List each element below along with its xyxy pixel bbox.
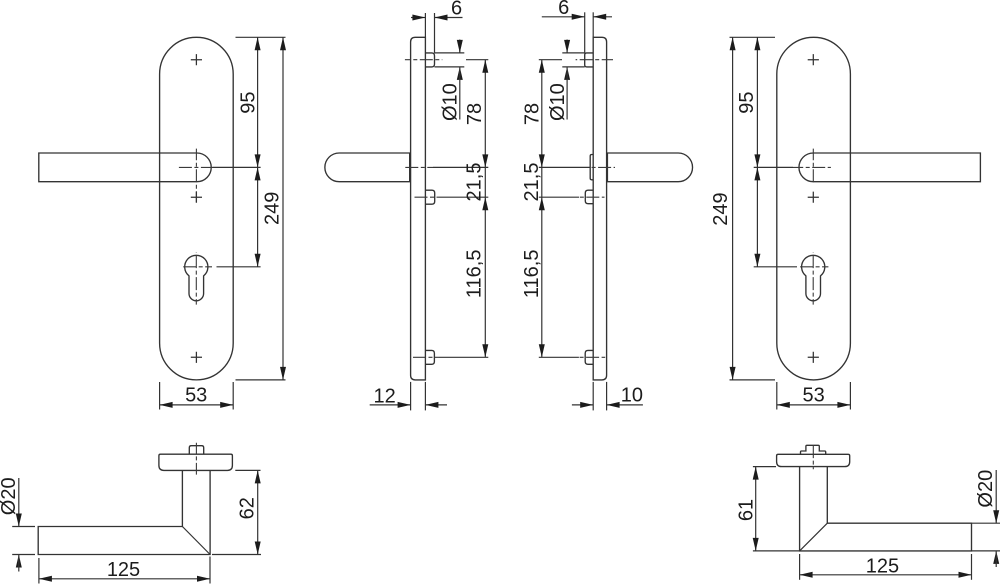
backplate edge (left handle top view) [159,454,233,470]
dimension 10 (inside side view) [572,382,643,411]
dimension 78 (inside side view) [522,60,563,168]
dimension diameter 20 (left handle top view) [0,477,35,571]
dimension 53 (inside front view) [777,382,851,410]
svg-text:53: 53 [185,384,207,406]
svg-text:249: 249 [262,192,284,225]
spindle end (left handle top view) [189,443,203,475]
dimension 125 (left handle top view) [39,557,210,584]
svg-text:6: 6 [558,0,569,19]
dimension diameter 10 (inside side view) [547,40,585,122]
centerline spindle (inside side view) [539,196,605,198]
backplate profile (inside side view) [593,37,606,380]
lever handle profile (inside side view) [607,153,693,182]
dimension 62 (left handle top view) [212,470,261,554]
centerline top boss (outside side view) [405,59,442,61]
screw mark middle (outside front view) [191,192,202,203]
svg-text:10: 10 [621,384,643,406]
top fixing boss (outside side view) [425,53,434,67]
lever centerline cross (outside front view) [179,149,213,203]
lever handle (outside front view) [39,153,211,182]
dimension 61 (right handle top view) [736,467,800,551]
centerline bottom boss (inside side view) [539,356,605,358]
svg-text:Ø10: Ø10 [547,83,569,121]
lever handle (left handle top view) [38,470,210,554]
dimension 21,5 (inside side view) [521,163,543,202]
lever hub (inside side view) [590,155,593,180]
svg-text:249: 249 [710,192,732,225]
backplate outline (outside front view) [160,37,234,380]
centerline lever (inside side view) [539,166,615,168]
dimension 116,5 (inside side view) [521,197,545,357]
dimension 6 (outside side view) [411,0,463,53]
svg-text:12: 12 [373,386,395,408]
dimension lever-to-cylinder (inside front view) [754,167,760,266]
screw mark top (outside front view) [191,54,202,65]
bottom fixing boss (inside side view) [585,350,593,364]
dimension 249 (outside front view) [262,37,287,380]
spindle boss (inside side view) [585,190,593,204]
centerline top boss (inside side view) [576,59,613,61]
backplate profile (outside side view) [411,37,426,380]
lever centerline cross (inside front view) [793,149,831,185]
svg-text:95: 95 [736,91,758,113]
svg-text:95: 95 [238,91,260,113]
dimension 6 (inside side view) [542,0,612,53]
svg-text:125: 125 [107,559,140,581]
dimension 78 (outside side view) [464,60,488,168]
screw mark bottom (outside front view) [191,352,202,363]
svg-text:Ø20: Ø20 [975,470,997,508]
centerline bottom boss (outside side view) [413,356,489,358]
svg-text:53: 53 [802,384,824,406]
svg-text:78: 78 [464,103,486,125]
dimension lever-to-cylinder (outside front view) [255,167,261,266]
dimension 53 (outside front view) [160,382,234,410]
screw mark bottom (inside front view) [808,352,819,363]
svg-text:116,5: 116,5 [521,250,543,299]
euro profile cylinder hole (outside front view) [181,252,212,304]
lever handle (right handle top view) [800,467,972,551]
extension lines (outside front view) [213,37,286,380]
dimension 95 (outside front view) [238,37,261,167]
dimension 249 (inside front view) [710,37,736,380]
centerline spindle (outside side view) [414,196,489,198]
dimension diameter 10 (outside side view) [435,40,465,122]
dimension 12 (outside side view) [370,382,447,411]
screw mark top (inside front view) [808,54,819,65]
svg-text:125: 125 [866,555,899,577]
dimension 95 (inside front view) [736,37,760,167]
svg-text:21,5: 21,5 [463,163,485,202]
svg-text:Ø20: Ø20 [0,477,20,515]
spindle nut (right handle top view) [801,443,826,470]
svg-text:21,5: 21,5 [521,163,543,202]
dimension diameter 20 (right handle top view) [972,470,1000,567]
top fixing boss (inside side view) [585,53,594,67]
svg-text:62: 62 [237,497,259,519]
svg-text:Ø10: Ø10 [439,83,461,121]
dimension 21,5 (outside side view) [463,163,485,202]
bottom fixing boss (outside side view) [425,350,434,364]
svg-text:78: 78 [522,103,544,125]
svg-text:116,5: 116,5 [464,250,486,299]
spindle boss (outside side view) [425,190,434,204]
backplate edge (right handle top view) [777,454,850,466]
svg-text:6: 6 [451,0,462,20]
backplate outline (inside front view) [777,37,851,380]
lever handle profile (outside side view) [325,153,411,182]
dimension 125 (right handle top view) [800,554,972,580]
screw mark middle (inside front view) [808,192,819,203]
svg-text:61: 61 [736,499,758,521]
extension lines (inside front view) [730,37,798,380]
euro profile cylinder hole (inside front view) [798,252,829,304]
lever handle (inside front view) [799,153,980,182]
dimension 116,5 (outside side view) [464,197,489,357]
centerline lever (outside side view) [403,166,488,168]
